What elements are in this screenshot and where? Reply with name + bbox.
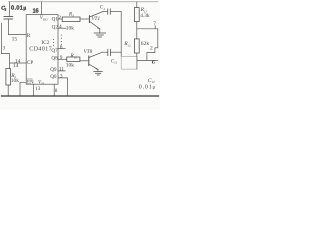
ground (VT8 emitter): [94, 70, 103, 76]
wire Q7 pin6 stub: [58, 48, 65, 50]
svg-text:2: 2: [150, 45, 153, 51]
svg-text:6: 6: [60, 44, 63, 50]
transistor VT8: [80, 52, 103, 69]
wire zigzag to CP: [1, 54, 26, 64]
wire right edge down: [157, 29, 159, 48]
terminal 6 tick: [151, 60, 153, 63]
svg-text:15: 15: [12, 36, 18, 42]
svg-text:C11: C11: [111, 59, 118, 64]
wire Q8 pin9: [58, 58, 67, 60]
svg-text:R3: R3: [68, 12, 74, 17]
wire VDD pin16: [41, 2, 43, 15]
svg-text:10k: 10k: [66, 63, 74, 69]
wire box to terminal 6: [137, 59, 158, 61]
svg-text:6: 6: [152, 60, 155, 66]
capacitor C1: [4, 2, 13, 35]
svg-text:Q9: Q9: [50, 67, 57, 73]
wire VSS pin8 to ground rail: [53, 84, 55, 96]
resistor R11: [134, 8, 139, 22]
wire pin15 reset: [9, 34, 27, 36]
svg-text:CP: CP: [27, 60, 33, 66]
ellipsis outside IC (omitted stages): [61, 34, 62, 45]
resistor R3: [62, 17, 80, 22]
wire R11 bottom to terminal 7: [137, 22, 158, 29]
svg-text:10k: 10k: [66, 26, 74, 32]
wire Q9 pin11 stub: [58, 70, 65, 72]
svg-text:Q0: Q0: [50, 74, 57, 80]
resistor R2: [6, 63, 11, 96]
op IC2 CD4017 box: [26, 15, 58, 85]
svg-text:Q7: Q7: [51, 48, 58, 54]
wire Q1 pin2: [58, 18, 62, 20]
svg-text:16: 16: [33, 9, 39, 15]
capacitor C4: [103, 9, 121, 14]
output device box: [121, 56, 137, 69]
wire left edge vertical: [0, 23, 2, 53]
svg-text:R: R: [27, 33, 31, 39]
svg-text:62k: 62k: [141, 41, 150, 47]
svg-text:7: 7: [153, 21, 156, 27]
svg-text:3: 3: [60, 74, 63, 80]
svg-text:CD4017: CD4017: [29, 46, 52, 52]
svg-text:10k: 10k: [11, 78, 19, 84]
wire Q0 pin3 to ground rail: [58, 78, 68, 96]
ellipsis inside IC between Q2 and Q7: [53, 39, 54, 46]
svg-text:C4: C4: [100, 6, 105, 11]
svg-text:Q8: Q8: [51, 55, 58, 61]
svg-text:EN: EN: [27, 80, 34, 85]
svg-text:13: 13: [35, 86, 41, 92]
wire Q2 pin4 stub: [58, 27, 66, 29]
wire top rail to R11: [136, 2, 138, 8]
svg-text:VT1: VT1: [91, 16, 100, 22]
resistor R12: [134, 29, 139, 57]
resistor R10: [67, 57, 80, 62]
svg-text:4.3k: 4.3k: [140, 13, 150, 19]
terminal 7 tick: [154, 26, 156, 29]
svg-text:2: 2: [58, 15, 61, 21]
wire EN pin13 to ground rail: [33, 84, 35, 96]
svg-text:Q2: Q2: [52, 25, 59, 31]
wire top supply rail: [9, 1, 159, 3]
svg-text:VDD: VDD: [40, 16, 48, 21]
ground (VT1 emitter): [94, 29, 105, 37]
svg-text:11: 11: [59, 67, 64, 73]
svg-text:0.01μ: 0.01μ: [11, 5, 26, 11]
transistor VT1: [80, 12, 103, 29]
wire C4 to output box: [120, 12, 122, 57]
svg-text:VT8: VT8: [84, 49, 93, 55]
wire bottom ground rail: [2, 95, 159, 97]
svg-text:0.01μ: 0.01μ: [139, 84, 156, 90]
wire staircase terminal 2: [147, 48, 158, 61]
svg-text:9: 9: [60, 55, 63, 61]
svg-text:VSS: VSS: [38, 81, 45, 86]
svg-text:14: 14: [13, 63, 19, 69]
svg-text:IC2: IC2: [41, 40, 49, 46]
svg-text:4: 4: [59, 24, 62, 30]
capacitor C11: [103, 49, 122, 55]
wire EN to ground rail: [20, 82, 26, 96]
svg-text:Q1: Q1: [52, 17, 59, 23]
